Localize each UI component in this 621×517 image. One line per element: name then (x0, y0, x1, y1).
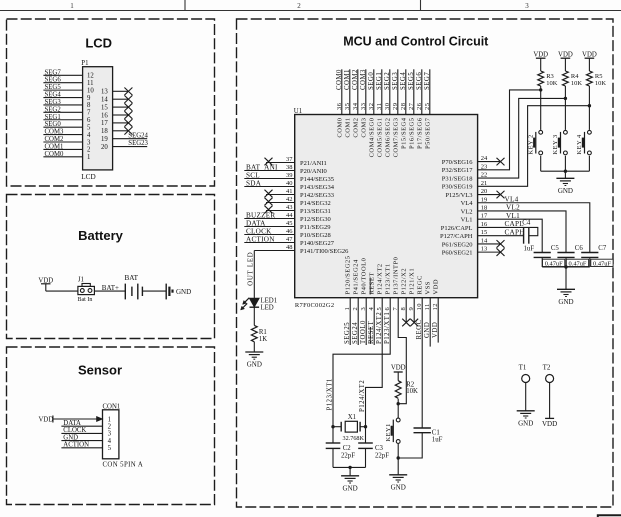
svg-text:GND: GND (343, 484, 358, 492)
ground (LED) (245, 352, 263, 369)
svg-text:0.47uF: 0.47uF (545, 260, 563, 267)
svg-text:COM6/SEG2: COM6/SEG2 (384, 118, 391, 158)
svg-text:CAPH: CAPH (505, 228, 525, 236)
svg-text:C7: C7 (598, 245, 607, 252)
svg-text:10K: 10K (546, 80, 558, 87)
svg-text:P1: P1 (81, 60, 88, 67)
wire P1 pin 6 (SEG1) (43, 119, 82, 121)
junction R2/KEY1/INTP0 (397, 402, 400, 405)
wire U1 pin 43 stub (266, 210, 295, 212)
capacitor C5 0.47uF (534, 252, 551, 254)
wire R3 to KEY2 (540, 86, 542, 130)
wire VL2 (pin 18) to C6 (478, 211, 566, 253)
svg-text:P50/SEG7: P50/SEG7 (424, 117, 431, 149)
svg-text:VL2: VL2 (506, 204, 520, 212)
svg-text:41: 41 (286, 188, 293, 195)
wire U1 pin 2 (SEG24) (357, 298, 359, 345)
svg-text:Sensor: Sensor (78, 363, 122, 378)
junction caps rail (564, 265, 567, 268)
wire crystal left (333, 426, 341, 428)
svg-text:C2: C2 (343, 445, 352, 452)
svg-text:20: 20 (101, 144, 108, 151)
wire P1 pin 9 (SEG4) (43, 97, 82, 99)
svg-text:KEY1: KEY1 (385, 423, 392, 441)
svg-text:P140/SEG27: P140/SEG27 (300, 240, 335, 247)
svg-text:P123/XT1: P123/XT1 (385, 263, 392, 294)
wire P1 pin 20 (SEG23) (113, 146, 148, 148)
svg-text:10: 10 (87, 87, 94, 94)
no-connect X U1 pin 37 (265, 158, 273, 166)
svg-text:P144/SEG35: P144/SEG35 (300, 176, 334, 183)
wire U1 pin 31 (SEG1) (381, 69, 383, 114)
wire P1 pin 17 stub (113, 122, 129, 124)
svg-text:1: 1 (70, 2, 74, 10)
no-connect X P1 pin 15 (124, 103, 132, 111)
svg-text:35: 35 (344, 103, 351, 111)
ground (T1) (517, 411, 535, 428)
svg-text:R7F0C002G2: R7F0C002G2 (295, 302, 334, 309)
sheet ruler top border (0, 10, 621, 12)
wire P1 pin 12 (SEG7) (43, 74, 82, 76)
svg-text:TOOL0: TOOL0 (360, 320, 367, 344)
svg-text:SEG24: SEG24 (128, 132, 148, 139)
svg-text:29: 29 (392, 103, 399, 111)
svg-text:COM4/SEG0: COM4/SEG0 (368, 118, 375, 158)
svg-text:COM1: COM1 (344, 69, 351, 90)
pushbutton KEY4 (588, 130, 592, 134)
svg-text:2: 2 (108, 424, 112, 431)
svg-text:SEG7: SEG7 (45, 69, 62, 76)
no-connect X P1 pin 14 (124, 95, 132, 103)
junction XT1/crystal/C2 (331, 425, 334, 428)
wire CAPL (pin 16) to C4 (478, 227, 538, 235)
svg-text:BAT: BAT (125, 274, 139, 282)
no-connect X U1 pin 9 (410, 319, 418, 327)
svg-text:40: 40 (286, 180, 293, 187)
svg-text:12: 12 (87, 73, 94, 80)
svg-text:3: 3 (108, 431, 112, 438)
wire T1 to ground (525, 383, 527, 411)
svg-text:39: 39 (286, 172, 293, 179)
pushbutton KEY1 (396, 418, 400, 422)
svg-text:GND: GND (558, 298, 573, 306)
wire VDD to J1 (46, 290, 78, 292)
svg-text:10K: 10K (406, 388, 418, 395)
svg-text:2: 2 (87, 147, 91, 154)
wire C5 to rail (541, 257, 543, 267)
junction keys rail (564, 170, 567, 173)
capacitor C3 22pF (358, 442, 373, 444)
svg-text:34: 34 (352, 102, 359, 110)
wire C2 to rail (332, 448, 334, 467)
wire P1 pin 15 stub (113, 106, 129, 108)
wire P1 pin 1 (COM0) (43, 156, 82, 158)
wire U1 pin 40 (SDA) (244, 186, 294, 188)
svg-text:VDD: VDD (432, 322, 439, 338)
wire U1 pin 3 (TOOL0) (365, 298, 367, 345)
svg-text:Battery: Battery (78, 228, 124, 243)
connector P1 body (83, 67, 113, 170)
svg-text:SEG4: SEG4 (400, 72, 407, 90)
no-connect X U1 pin 14 (497, 240, 505, 248)
wire U1 pin 4 (RESET) (373, 298, 375, 345)
svg-text:4: 4 (87, 132, 91, 139)
svg-text:17: 17 (101, 120, 108, 127)
svg-text:15: 15 (101, 104, 108, 111)
wire U1 pin 36 (COM0) (341, 69, 343, 114)
svg-text:P121/X1: P121/X1 (409, 268, 416, 295)
svg-text:P122/X2: P122/X2 (401, 268, 408, 295)
IC U1 body (295, 115, 478, 298)
svg-text:GND: GND (391, 483, 406, 491)
LED emission arrows (245, 298, 249, 302)
svg-text:SEG5: SEG5 (408, 72, 415, 90)
svg-text:GND: GND (424, 322, 431, 338)
svg-text:30: 30 (384, 103, 391, 111)
svg-text:VL4: VL4 (505, 195, 519, 203)
no-connect X U1 pin 43 (265, 206, 273, 214)
svg-text:42: 42 (286, 196, 293, 203)
svg-text:MCU and Control Circuit: MCU and Control Circuit (343, 35, 489, 49)
wire U1 pin 28 (SEG4) (405, 69, 407, 114)
wire LED1 to R1 (253, 307, 255, 325)
svg-text:SEG1: SEG1 (376, 72, 383, 90)
svg-text:VL1: VL1 (506, 212, 520, 220)
no-connect X U1 pin 42 (265, 198, 273, 206)
svg-text:VL4: VL4 (461, 200, 474, 207)
svg-text:1uF: 1uF (524, 246, 535, 253)
connector CON1 body (103, 410, 119, 459)
capacitor C6 0.47uF (557, 252, 574, 254)
svg-text:C1: C1 (432, 429, 440, 436)
svg-text:BUZZER: BUZZER (246, 211, 275, 219)
svg-text:SEG0: SEG0 (45, 121, 62, 128)
svg-text:3: 3 (87, 139, 91, 146)
svg-text:LCD: LCD (85, 36, 112, 51)
svg-text:CLOCK: CLOCK (63, 427, 86, 434)
svg-text:COM1: COM1 (344, 118, 351, 138)
svg-text:KEY 3: KEY 3 (552, 134, 559, 154)
junction R5 / pin wire (588, 104, 591, 107)
junction XT2/crystal/C3 (364, 425, 367, 428)
svg-text:33: 33 (360, 103, 367, 111)
wire U1 pin 22 to KEY3 net (478, 98, 566, 178)
svg-text:VDD: VDD (391, 365, 406, 372)
svg-text:26: 26 (416, 102, 423, 110)
svg-text:R5: R5 (595, 73, 603, 80)
svg-text:P123/XT1: P123/XT1 (327, 378, 334, 410)
pushbutton KEY2 (539, 130, 543, 134)
svg-text:DATA: DATA (63, 420, 81, 427)
svg-text:37: 37 (286, 156, 293, 163)
no-connect X U1 pin 8 (402, 319, 410, 327)
C6 value box 0.47uF (566, 259, 588, 266)
wire J1 to BAT (94, 290, 125, 292)
svg-text:COM3: COM3 (360, 118, 367, 138)
resistor R1 1K (251, 325, 257, 341)
wire P1 pin 13 stub (113, 90, 129, 92)
svg-text:14: 14 (101, 97, 108, 104)
svg-text:44: 44 (286, 212, 293, 219)
svg-text:9: 9 (87, 95, 91, 102)
svg-text:38: 38 (286, 164, 293, 171)
svg-text:6: 6 (87, 117, 91, 124)
title block corner (bottom right) (598, 515, 621, 517)
svg-text:P30/SEG19: P30/SEG19 (442, 184, 473, 191)
capacitor C1 1uF (414, 427, 431, 429)
svg-text:P40/TOOL0: P40/TOOL0 (361, 258, 368, 295)
wire U1 pin 46 (CLOCK) (244, 234, 294, 236)
no-connect X U1 pin 41 (265, 190, 273, 198)
svg-text:VDD: VDD (533, 51, 548, 58)
RESET overbar (net label) (369, 327, 371, 344)
wire U1 pin 47 (ACTION) (244, 242, 294, 244)
svg-text:VL2: VL2 (461, 208, 473, 215)
svg-text:DATA: DATA (246, 219, 266, 227)
RESET overbar (pin name) (369, 278, 371, 295)
wire R5 to KEY4 (588, 86, 590, 130)
svg-text:SEG23: SEG23 (128, 140, 148, 147)
ruler tick 1 (184, 0, 186, 11)
junction R4 / pin wire (564, 97, 567, 100)
svg-text:P12/SEG30: P12/SEG30 (300, 216, 331, 223)
svg-text:P125/VL3: P125/VL3 (445, 192, 472, 199)
svg-text:P142/SEG33: P142/SEG33 (300, 192, 334, 199)
svg-text:GND: GND (176, 288, 191, 296)
svg-text:8: 8 (87, 102, 91, 109)
svg-text:31: 31 (376, 103, 383, 111)
wire U1 pin 29 (SEG3) (397, 69, 399, 114)
svg-text:J1: J1 (78, 276, 84, 283)
svg-text:SEG7: SEG7 (424, 72, 431, 90)
svg-text:C4: C4 (522, 219, 531, 226)
svg-text:VDD: VDD (582, 51, 597, 58)
wire U1 pin 13 stub (478, 251, 500, 253)
svg-text:R1: R1 (259, 329, 267, 336)
junction KEY1/C1 ground node (397, 456, 400, 459)
svg-text:SEG2: SEG2 (384, 72, 391, 90)
wire T2 to VDD (549, 383, 551, 419)
svg-text:VL1: VL1 (461, 217, 473, 224)
svg-text:2: 2 (297, 2, 301, 10)
wire U1 pin 32 (SEG0) (373, 69, 375, 114)
wire U1 pin 7 (INTP0) to KEY1 (398, 298, 406, 404)
wire DATA to CON1 pin 2 (61, 425, 102, 427)
svg-text:P11/SEG29: P11/SEG29 (300, 224, 330, 231)
svg-text:P143/SEG34: P143/SEG34 (300, 184, 335, 191)
ground (caps) (557, 289, 575, 306)
LCD block dashed border (7, 19, 215, 186)
svg-text:GND: GND (247, 361, 262, 369)
svg-text:P41/SEG24: P41/SEG24 (353, 259, 360, 294)
wire crystal ground rail (333, 466, 366, 468)
svg-text:C3: C3 (375, 445, 384, 452)
svg-text:P124/XT2: P124/XT2 (376, 312, 383, 344)
wire crystal right (360, 426, 365, 428)
svg-text:46: 46 (286, 228, 293, 235)
no-connect X P1 pin 16 (124, 111, 132, 119)
wire P1 pin 11 (SEG6) (43, 82, 82, 84)
svg-text:COM3: COM3 (45, 129, 64, 136)
wire KEY1 to ground (397, 443, 399, 474)
svg-text:SEG3: SEG3 (392, 72, 399, 90)
wire KEY3 to ground rail (564, 156, 566, 171)
svg-text:REGC: REGC (417, 275, 424, 294)
svg-text:1uF: 1uF (432, 436, 443, 443)
wire R1 to ground (253, 342, 255, 352)
wire P1 pin 19 (SEG24) (113, 138, 148, 140)
svg-text:KEY 4: KEY 4 (576, 134, 583, 154)
svg-text:VDD: VDD (558, 51, 573, 58)
svg-text:19: 19 (101, 136, 108, 143)
wire U1 pin 8 stub (405, 298, 407, 323)
svg-text:CLOCK: CLOCK (246, 227, 272, 235)
wire P1 pin 16 stub (113, 114, 129, 116)
wire VL1 (pin 17) to C5 (478, 219, 543, 252)
power port VDD (T2) (545, 417, 554, 419)
wire CLOCK to CON1 pin 3 (61, 432, 102, 434)
svg-text:0.47uF: 0.47uF (593, 260, 611, 267)
wire U1 pin 39 (SCL) (244, 178, 294, 180)
wire U1 pin 1 (SEG25) (349, 298, 351, 345)
svg-text:P124/XT2: P124/XT2 (377, 263, 384, 294)
MCU block dashed border (237, 19, 614, 507)
svg-text:R3: R3 (546, 73, 554, 80)
svg-text:13: 13 (101, 89, 108, 96)
wire U1 pin 11 (GND) (429, 298, 431, 347)
svg-text:SEG2: SEG2 (45, 106, 62, 113)
svg-text:P123/XT1: P123/XT1 (384, 312, 391, 344)
svg-text:18: 18 (101, 128, 108, 135)
svg-text:SEG0: SEG0 (368, 72, 375, 90)
wire keys common ground rail (541, 170, 590, 172)
svg-text:U1: U1 (294, 108, 302, 115)
svg-text:32.768K: 32.768K (343, 435, 365, 442)
svg-text:SEG24: SEG24 (352, 322, 359, 344)
ground (KEY1) (389, 475, 407, 492)
wire CAPH (pin 15) to C4 (478, 235, 524, 237)
svg-text:10K: 10K (571, 80, 583, 87)
wire P1 pin 2 (COM1) (43, 148, 82, 150)
wire U1 pin 24 stub (478, 161, 500, 163)
svg-text:22pF: 22pF (341, 453, 355, 460)
C5 value box 0.47uF (543, 259, 565, 266)
svg-text:C6: C6 (575, 245, 584, 252)
wire U1 pin 21 to KEY4 net (478, 106, 590, 187)
svg-text:P16/SEG5: P16/SEG5 (408, 118, 415, 149)
svg-text:CAPL: CAPL (505, 220, 524, 228)
svg-text:4: 4 (108, 438, 112, 445)
C7 value box 0.47uF (591, 259, 613, 266)
wire U1 pin 48 (OUT_LED) (254, 250, 294, 252)
svg-text:P61/SEG20: P61/SEG20 (442, 241, 473, 248)
svg-text:SCL: SCL (246, 171, 260, 179)
svg-text:P20/ANI0: P20/ANI0 (300, 168, 327, 175)
svg-text:P60/SEG21: P60/SEG21 (442, 250, 473, 257)
Battery block dashed border (7, 195, 215, 339)
capacitor C7 0.47uF (581, 252, 598, 254)
svg-text:32: 32 (368, 103, 375, 111)
resistor R5 10K (587, 71, 593, 86)
wire U1 pin 27 (SEG5) (413, 69, 415, 114)
resistor R2 10K (395, 381, 401, 399)
svg-text:48: 48 (286, 244, 293, 251)
svg-text:COM1: COM1 (45, 143, 64, 150)
svg-text:COM2: COM2 (352, 69, 359, 90)
ground (keys) (556, 178, 574, 195)
svg-text:CON 5PIN A: CON 5PIN A (103, 461, 144, 468)
Sensor block dashed border (7, 347, 215, 505)
svg-text:SEG6: SEG6 (416, 72, 423, 90)
ground contact (GND) (165, 284, 167, 300)
svg-text:P124/XT2: P124/XT2 (359, 380, 366, 412)
wire U1 pin 30 (SEG2) (389, 69, 391, 114)
wire U1 pin 34 (COM2) (357, 69, 359, 114)
resistor R4 10K (563, 71, 569, 86)
wire U1 pin 44 (BUZZER) (244, 218, 294, 220)
svg-text:RESET: RESET (368, 320, 375, 344)
wire U1 pin 14 stub (478, 243, 500, 245)
svg-text:P13/SEG31: P13/SEG31 (300, 208, 331, 215)
svg-text:P21/ANI1: P21/ANI1 (300, 160, 327, 167)
svg-text:47: 47 (286, 236, 293, 243)
wire BAT to GND contact (142, 290, 166, 292)
svg-text:COM7/SEG3: COM7/SEG3 (392, 118, 399, 158)
svg-text:11: 11 (87, 80, 94, 87)
svg-text:3: 3 (525, 2, 529, 10)
svg-text:VDD: VDD (433, 279, 440, 295)
connector J1 (Bat In) (82, 284, 90, 287)
ruler tick 2 (420, 0, 422, 11)
svg-text:LED: LED (261, 304, 274, 311)
svg-text:1: 1 (108, 416, 111, 423)
svg-text:BAT_ANI: BAT_ANI (246, 163, 278, 171)
svg-text:P141/TI00/SEG26: P141/TI00/SEG26 (300, 248, 349, 255)
svg-text:16: 16 (101, 112, 108, 119)
crystal X1 32.768K (340, 422, 342, 432)
wire C1 to ground node (398, 433, 422, 458)
ground (crystal) (341, 476, 359, 493)
svg-text:SEG6: SEG6 (45, 77, 62, 84)
svg-text:ACTION: ACTION (63, 442, 89, 449)
no-connect X U1 pin 24 (497, 158, 505, 166)
svg-text:25: 25 (424, 103, 431, 111)
wire U1 pin 35 (COM1) (349, 69, 351, 114)
svg-text:28: 28 (400, 103, 407, 111)
svg-text:43: 43 (286, 204, 293, 211)
wire U1 pin 12 (VDD) (437, 298, 439, 343)
wire U1 pin 23 to KEY2 net (478, 90, 541, 170)
svg-text:P32/SEG17: P32/SEG17 (442, 167, 473, 174)
svg-text:P14/SEG32: P14/SEG32 (300, 200, 331, 207)
wire P1 pin 5 (SEG0) (43, 126, 82, 128)
wire U1 pin 33 (COM3) (365, 69, 367, 114)
wire caps common rail (542, 266, 590, 268)
svg-text:GND: GND (558, 187, 573, 195)
wire C6 to rail (565, 257, 567, 267)
wire U1 pin 6 (P123/XT1) to crystal (333, 298, 390, 443)
svg-text:0.47uF: 0.47uF (569, 260, 587, 267)
svg-text:KEY 2: KEY 2 (527, 134, 534, 154)
no-connect X P1 pin 18 (124, 127, 132, 135)
svg-text:SEG5: SEG5 (45, 84, 62, 91)
wire P1 pin 18 stub (113, 130, 129, 132)
svg-text:P127/CAPH: P127/CAPH (440, 233, 473, 240)
svg-text:SEG1: SEG1 (45, 114, 61, 121)
svg-text:45: 45 (286, 220, 293, 227)
svg-text:COM0: COM0 (336, 69, 343, 90)
wire U1 pin 41 stub (266, 194, 295, 196)
